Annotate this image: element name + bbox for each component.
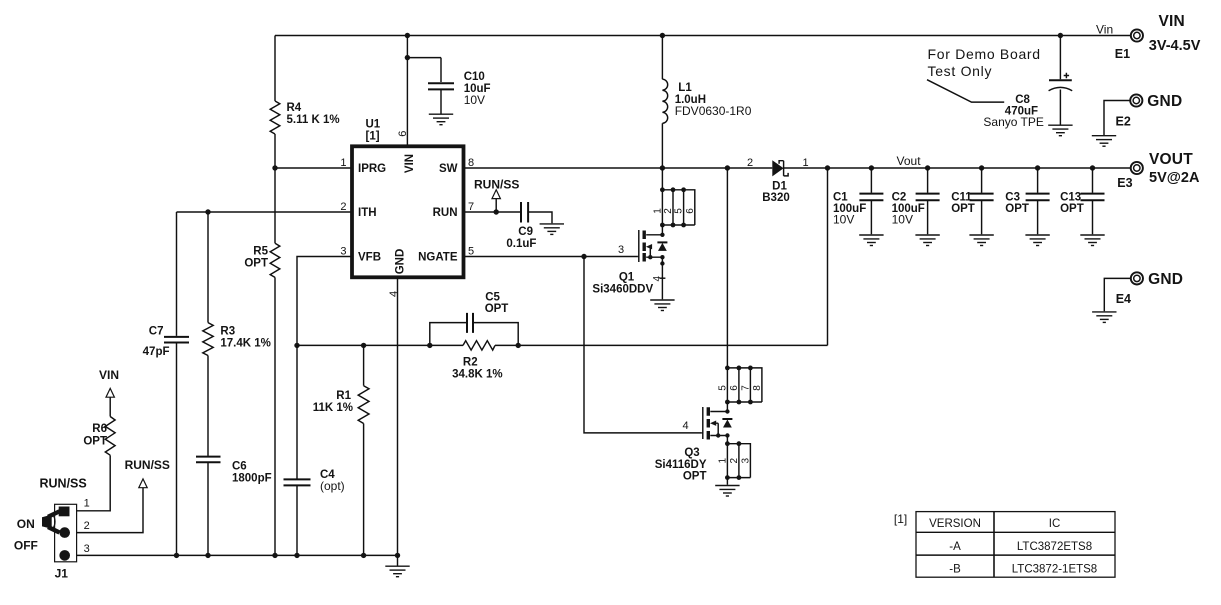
svg-text:3: 3 <box>618 244 624 256</box>
svg-text:OPT: OPT <box>683 471 707 483</box>
svg-text:RUN/SS: RUN/SS <box>40 477 87 491</box>
svg-text:5: 5 <box>674 208 685 214</box>
svg-text:GND: GND <box>1147 93 1182 110</box>
wire R4/R5 left vertical branch <box>274 36 276 556</box>
note [1] version reference <box>894 512 907 526</box>
svg-text:8: 8 <box>752 385 763 391</box>
wire ground bus <box>77 553 401 558</box>
svg-text:NGATE: NGATE <box>418 252 458 264</box>
transistor Q3 source pin bundle 1,2,3 <box>717 436 751 485</box>
svg-text:Sanyo TPE: Sanyo TPE <box>983 115 1043 129</box>
svg-text:OPT: OPT <box>244 258 268 270</box>
node Vout label <box>897 154 922 168</box>
svg-text:FDV0630-1R0: FDV0630-1R0 <box>675 104 752 118</box>
node junction VFB-C4 <box>294 343 299 348</box>
capacitor C8 electrolytic <box>983 36 1072 130</box>
svg-text:17.4K 1%: 17.4K 1% <box>220 338 271 350</box>
resistor R6 <box>83 397 115 455</box>
svg-text:C11: C11 <box>951 192 972 204</box>
svg-text:D1: D1 <box>772 181 787 193</box>
ground E2 <box>1092 136 1116 147</box>
svg-text:5: 5 <box>468 246 474 258</box>
svg-text:2: 2 <box>84 520 90 532</box>
svg-text:1: 1 <box>717 458 728 464</box>
svg-text:R6: R6 <box>92 423 107 435</box>
ground C3 <box>1025 235 1049 246</box>
svg-text:3: 3 <box>740 458 751 464</box>
node RUN/SS arrow J1 <box>125 458 170 488</box>
node junction rail-C10 <box>405 33 410 38</box>
terminal E2 <box>1104 93 1182 135</box>
svg-text:1: 1 <box>652 208 663 214</box>
capacitor C1 <box>833 165 883 234</box>
svg-text:4: 4 <box>652 276 663 282</box>
svg-text:2: 2 <box>747 157 753 169</box>
svg-text:Q3: Q3 <box>684 447 699 459</box>
svg-text:3: 3 <box>340 246 346 258</box>
svg-text:2: 2 <box>729 458 740 464</box>
svg-text:OFF: OFF <box>14 539 38 553</box>
wire J1 pin2 to RUN/SS <box>77 488 143 533</box>
svg-text:1: 1 <box>802 157 808 169</box>
svg-text:Q1: Q1 <box>619 272 635 284</box>
svg-text:L1: L1 <box>678 82 692 94</box>
capacitor C4 <box>284 345 345 555</box>
svg-text:R5: R5 <box>253 246 268 258</box>
svg-text:10V: 10V <box>833 213 854 227</box>
ground C8 <box>1048 125 1072 136</box>
svg-text:LTC3872-1ETS8: LTC3872-1ETS8 <box>1012 563 1097 575</box>
svg-text:0.1uF: 0.1uF <box>506 238 536 250</box>
node junction rail-C8 <box>1058 33 1063 38</box>
op-amp U1 LTC3872 box <box>340 119 474 298</box>
ground main bus <box>385 555 409 576</box>
svg-text:C9: C9 <box>518 226 533 238</box>
ground E4 <box>1092 312 1116 323</box>
svg-text:C6: C6 <box>232 461 247 473</box>
svg-text:(opt): (opt) <box>320 479 345 493</box>
node RUN/SS arrow <box>474 178 519 213</box>
svg-text:6: 6 <box>397 131 409 137</box>
wire VFB pin3 <box>297 257 351 346</box>
svg-text:47pF: 47pF <box>143 346 170 358</box>
svg-text:ON: ON <box>17 517 35 531</box>
node VIN arrow <box>99 368 119 397</box>
svg-text:GND: GND <box>395 249 407 275</box>
capacitor C11 <box>951 165 993 234</box>
svg-text:E4: E4 <box>1116 292 1131 306</box>
svg-text:Si3460DDV: Si3460DDV <box>592 284 653 296</box>
svg-text:[1]: [1] <box>894 512 907 526</box>
capacitor C2 <box>892 165 940 234</box>
svg-text:7: 7 <box>468 201 474 213</box>
terminal E4 <box>1104 271 1183 311</box>
terminal E3 <box>1117 151 1200 190</box>
wire top VIN rail <box>275 35 1132 37</box>
wire NGATE to Q3 gate <box>584 257 702 433</box>
svg-text:IC: IC <box>1049 518 1061 530</box>
svg-text:1: 1 <box>340 157 346 169</box>
resistor R5 <box>244 243 279 277</box>
svg-text:C3: C3 <box>1005 192 1020 204</box>
svg-text:E3: E3 <box>1117 176 1132 190</box>
svg-text:C7: C7 <box>149 326 164 338</box>
ground C9 <box>540 224 564 235</box>
svg-text:GND: GND <box>1148 271 1183 288</box>
svg-text:For Demo Board: For Demo Board <box>928 46 1041 62</box>
ground C1 <box>859 235 883 246</box>
svg-text:B320: B320 <box>762 192 790 204</box>
svg-text:VOUT: VOUT <box>1149 151 1193 168</box>
diode D1 B320 <box>747 157 809 204</box>
svg-text:C1: C1 <box>833 192 848 204</box>
svg-text:IPRG: IPRG <box>358 163 386 175</box>
resistor R4 <box>270 101 339 134</box>
svg-text:E1: E1 <box>1115 47 1130 61</box>
svg-text:VIN: VIN <box>1159 13 1185 30</box>
svg-text:VERSION: VERSION <box>929 518 981 530</box>
capacitor C7 <box>143 212 189 555</box>
svg-text:RUN: RUN <box>433 207 458 219</box>
svg-text:-B: -B <box>949 563 961 575</box>
svg-text:5V@2A: 5V@2A <box>1149 170 1200 186</box>
svg-text:RUN/SS: RUN/SS <box>125 458 170 472</box>
ground Q1 <box>650 300 674 311</box>
wire SW / Vout line <box>465 165 1131 170</box>
svg-text:4: 4 <box>682 420 688 432</box>
capacitor C13 <box>1060 165 1104 234</box>
node Vin label <box>1096 23 1113 37</box>
ground C11 <box>969 235 993 246</box>
svg-text:C13: C13 <box>1060 192 1081 204</box>
svg-text:OPT: OPT <box>1060 203 1084 215</box>
terminal E1 <box>1115 13 1201 61</box>
svg-text:Si4116DY: Si4116DY <box>655 459 707 471</box>
wire pin6 VIN vertical <box>405 36 410 147</box>
capacitor C9 <box>506 202 552 250</box>
resistor R1 <box>313 343 369 556</box>
capacitor C6 <box>196 356 272 556</box>
wire J1 pin1 to R6 <box>77 455 111 511</box>
svg-text:6: 6 <box>729 385 740 391</box>
svg-text:Test Only: Test Only <box>928 63 993 79</box>
svg-text:VFB: VFB <box>358 252 381 264</box>
transistor Q3 Si4116DY <box>655 402 733 483</box>
svg-text:7: 7 <box>740 385 751 391</box>
capacitor C3 <box>1005 165 1049 234</box>
ground C10 <box>429 114 453 125</box>
wire RUN pin7 <box>465 209 520 214</box>
wire feedback line <box>297 344 828 346</box>
table version/IC <box>916 512 1115 578</box>
svg-text:SW: SW <box>439 163 458 175</box>
transistor Q1 Si3460DDV <box>592 225 667 299</box>
svg-text:11K 1%: 11K 1% <box>313 402 353 414</box>
capacitor C5 parallel loop <box>427 292 521 349</box>
connector J1 <box>14 477 90 581</box>
svg-text:VIN: VIN <box>404 154 416 173</box>
svg-text:3: 3 <box>84 543 90 555</box>
svg-text:5: 5 <box>717 385 728 391</box>
svg-text:2: 2 <box>340 201 346 213</box>
svg-text:R4: R4 <box>287 102 302 114</box>
wire IPRG pin1 <box>272 165 350 170</box>
ground C13 <box>1080 235 1104 246</box>
svg-text:J1: J1 <box>55 567 69 581</box>
wire NGATE pin5 <box>465 254 638 259</box>
svg-text:C2: C2 <box>892 192 907 204</box>
svg-text:RUN/SS: RUN/SS <box>474 178 519 192</box>
svg-text:Vout: Vout <box>897 154 922 168</box>
svg-text:LTC3872ETS8: LTC3872ETS8 <box>1017 541 1092 553</box>
svg-text:6: 6 <box>685 208 696 214</box>
svg-text:5.11 K 1%: 5.11 K 1% <box>287 114 340 126</box>
svg-text:1800pF: 1800pF <box>232 473 272 485</box>
svg-text:-A: -A <box>949 541 961 553</box>
svg-text:1: 1 <box>84 497 90 509</box>
svg-text:E2: E2 <box>1116 115 1131 129</box>
wire SW to Q3 drain <box>726 168 728 368</box>
svg-text:U1: U1 <box>366 119 381 131</box>
transistor Q1 drain pin bundle 1,2,5,6 <box>652 168 695 227</box>
node junction ITH-R3 <box>205 209 210 214</box>
svg-text:R2: R2 <box>463 357 478 369</box>
svg-text:8: 8 <box>468 157 474 169</box>
svg-text:10V: 10V <box>892 213 913 227</box>
svg-text:R1: R1 <box>336 390 351 402</box>
svg-text:OPT: OPT <box>83 436 107 448</box>
svg-text:OPT: OPT <box>951 203 975 215</box>
transistor Q3 drain pin bundle 5,6,7,8 <box>717 366 763 405</box>
wire GND pin4 <box>397 278 399 556</box>
svg-text:C5: C5 <box>485 292 500 304</box>
inductor L1 <box>662 36 751 169</box>
wire feedback from Vout <box>827 168 829 345</box>
svg-text:3V-4.5V: 3V-4.5V <box>1149 38 1201 54</box>
capacitor C10 <box>407 58 490 114</box>
svg-text:C8: C8 <box>1015 94 1030 106</box>
svg-text:ITH: ITH <box>358 207 377 219</box>
svg-text:34.8K 1%: 34.8K 1% <box>452 369 503 381</box>
wire ITH pin2 <box>177 211 351 213</box>
svg-text:2: 2 <box>663 208 674 214</box>
svg-text:C10: C10 <box>464 71 485 83</box>
svg-text:Vin: Vin <box>1096 23 1113 37</box>
svg-text:[1]: [1] <box>366 131 380 143</box>
svg-text:R3: R3 <box>220 326 235 338</box>
resistor R2 <box>452 341 503 381</box>
note For Demo Board Test Only <box>927 46 1041 102</box>
svg-text:OPT: OPT <box>485 303 509 315</box>
svg-text:OPT: OPT <box>1005 203 1029 215</box>
jumper shunt ON bracket <box>42 511 60 532</box>
resistor R3 <box>203 212 271 356</box>
node junction rail-L1 <box>660 33 665 38</box>
ground C2 <box>915 235 939 246</box>
svg-text:VIN: VIN <box>99 368 119 382</box>
svg-text:10V: 10V <box>464 93 485 107</box>
ground Q3 <box>715 486 739 497</box>
